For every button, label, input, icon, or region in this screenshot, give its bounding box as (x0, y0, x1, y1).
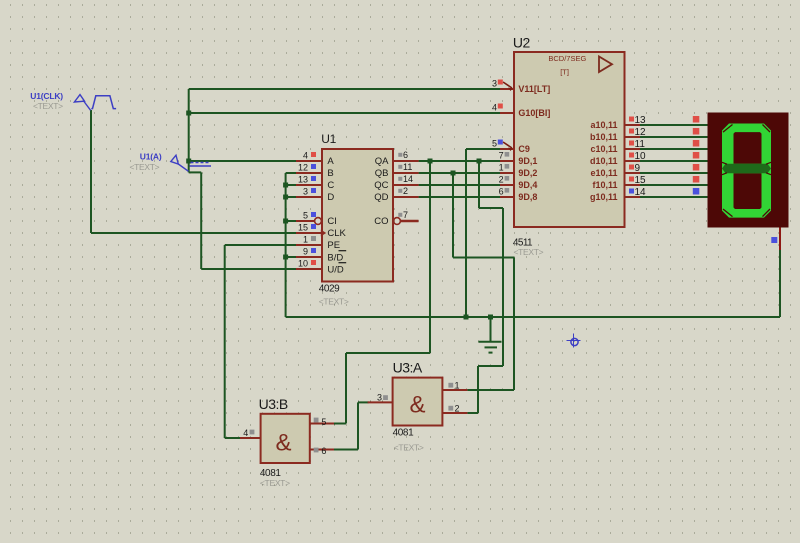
svg-text:U1(A): U1(A) (140, 152, 162, 162)
svg-text:7: 7 (403, 210, 408, 220)
svg-text:A: A (327, 156, 334, 167)
svg-text:QA: QA (375, 156, 389, 167)
svg-text:2: 2 (455, 403, 460, 413)
svg-text:C9: C9 (518, 144, 530, 154)
svg-text:U2: U2 (513, 35, 531, 51)
svg-text:c10,11: c10,11 (590, 144, 617, 154)
svg-text:&: & (275, 430, 291, 457)
svg-text:d10,11: d10,11 (590, 156, 618, 166)
svg-text:e10,11: e10,11 (590, 168, 617, 178)
svg-text:4: 4 (492, 103, 497, 113)
svg-text:15: 15 (635, 175, 647, 186)
svg-text:f10,11: f10,11 (592, 180, 617, 190)
svg-text:12: 12 (635, 127, 647, 138)
svg-text:11: 11 (635, 139, 646, 150)
svg-text:U/D: U/D (327, 265, 344, 276)
svg-text:QB: QB (375, 168, 389, 179)
svg-text:1: 1 (499, 163, 504, 173)
svg-text:14: 14 (403, 174, 413, 184)
svg-text:<TEXT>: <TEXT> (260, 478, 290, 488)
svg-text:g10,11: g10,11 (590, 192, 618, 202)
svg-text:10: 10 (635, 151, 647, 162)
svg-text:9: 9 (303, 247, 308, 257)
svg-text:2: 2 (403, 186, 408, 196)
svg-text:4081: 4081 (393, 428, 414, 439)
svg-text:4029: 4029 (319, 284, 340, 295)
svg-text:PE: PE (327, 240, 340, 251)
svg-text:D: D (327, 192, 334, 203)
svg-text:13: 13 (635, 115, 647, 126)
svg-text:b10,11: b10,11 (590, 132, 618, 142)
svg-text:7: 7 (499, 151, 504, 161)
svg-text:12: 12 (298, 163, 308, 173)
svg-text:6: 6 (321, 446, 326, 456)
svg-text:G10[BI]: G10[BI] (518, 108, 550, 118)
svg-text:B/D: B/D (327, 253, 343, 264)
svg-text:3: 3 (303, 187, 308, 197)
svg-text:3: 3 (492, 79, 497, 89)
svg-text:15: 15 (298, 223, 308, 233)
svg-text:QD: QD (374, 192, 388, 203)
svg-text:BCD/7SEG: BCD/7SEG (548, 54, 586, 63)
svg-text:9: 9 (635, 163, 641, 174)
svg-text:5: 5 (492, 139, 497, 149)
svg-text:13: 13 (298, 175, 308, 185)
svg-text:6: 6 (499, 187, 504, 197)
svg-text:5: 5 (321, 417, 326, 427)
svg-text:C: C (327, 180, 334, 191)
svg-text:9D,8: 9D,8 (518, 192, 537, 202)
svg-text:<TEXT>: <TEXT> (514, 247, 544, 257)
svg-text:&: & (409, 392, 425, 419)
svg-text:a10,11: a10,11 (590, 120, 617, 130)
svg-text:9D,4: 9D,4 (518, 180, 537, 190)
svg-text:U1(CLK): U1(CLK) (30, 91, 63, 101)
svg-text:<TEXT>: <TEXT> (319, 297, 349, 307)
svg-text:5: 5 (303, 211, 308, 221)
svg-text:1: 1 (303, 235, 308, 245)
svg-text:10: 10 (298, 259, 308, 269)
svg-text:3: 3 (377, 393, 382, 403)
svg-text:<TEXT>: <TEXT> (130, 162, 160, 172)
svg-text:B: B (327, 168, 333, 179)
svg-text:U1: U1 (321, 132, 336, 146)
svg-text:QC: QC (374, 180, 388, 191)
svg-text:4: 4 (243, 428, 248, 438)
svg-text:CO: CO (374, 216, 388, 227)
svg-text:<TEXT>: <TEXT> (394, 442, 424, 452)
svg-text:<TEXT>: <TEXT> (33, 101, 63, 111)
svg-text:1: 1 (455, 380, 460, 390)
svg-text:CLK: CLK (327, 228, 346, 239)
svg-text:2: 2 (499, 175, 504, 185)
svg-text:U3:B: U3:B (259, 396, 288, 412)
svg-text:9D,1: 9D,1 (518, 156, 537, 166)
svg-text:9D,2: 9D,2 (518, 168, 537, 178)
svg-text:CI: CI (327, 216, 337, 227)
svg-text:11: 11 (403, 162, 412, 172)
svg-text:U3:A: U3:A (393, 360, 423, 376)
svg-text:4: 4 (303, 151, 308, 161)
svg-text:[T]: [T] (560, 68, 569, 77)
svg-text:6: 6 (403, 150, 408, 160)
svg-text:V11[LT]: V11[LT] (518, 84, 550, 94)
svg-text:14: 14 (635, 187, 647, 198)
